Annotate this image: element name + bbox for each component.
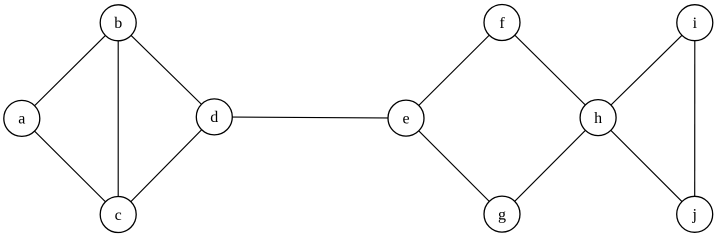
svg-text:d: d [210, 109, 218, 126]
svg-text:i: i [693, 15, 698, 32]
node b [100, 5, 136, 41]
edge g-h [502, 118, 598, 215]
node g [484, 196, 520, 232]
svg-text:a: a [18, 111, 25, 128]
svg-text:e: e [402, 110, 409, 127]
edge a-b [22, 23, 118, 119]
svg-text:b: b [114, 15, 122, 32]
node f [484, 5, 520, 41]
svg-text:j: j [691, 207, 696, 224]
node h [580, 100, 616, 136]
node d [196, 99, 232, 135]
edge e-f [406, 23, 502, 119]
edge h-i [598, 23, 695, 118]
node j [677, 196, 713, 232]
svg-text:f: f [499, 15, 505, 32]
edge c-d [118, 117, 214, 215]
node c [100, 197, 136, 233]
edge d-e [214, 117, 406, 118]
edge b-c [117, 23, 119, 215]
svg-text:h: h [594, 110, 602, 127]
edge h-j [598, 118, 695, 215]
node a [4, 100, 40, 136]
edge i-j [694, 23, 696, 215]
edge a-c [22, 118, 118, 214]
node e [388, 100, 424, 136]
edge f-h [502, 23, 598, 118]
svg-text:g: g [498, 206, 506, 223]
edge e-g [406, 118, 502, 214]
edge b-d [118, 23, 214, 117]
svg-text:c: c [115, 207, 122, 224]
node i [677, 5, 713, 41]
